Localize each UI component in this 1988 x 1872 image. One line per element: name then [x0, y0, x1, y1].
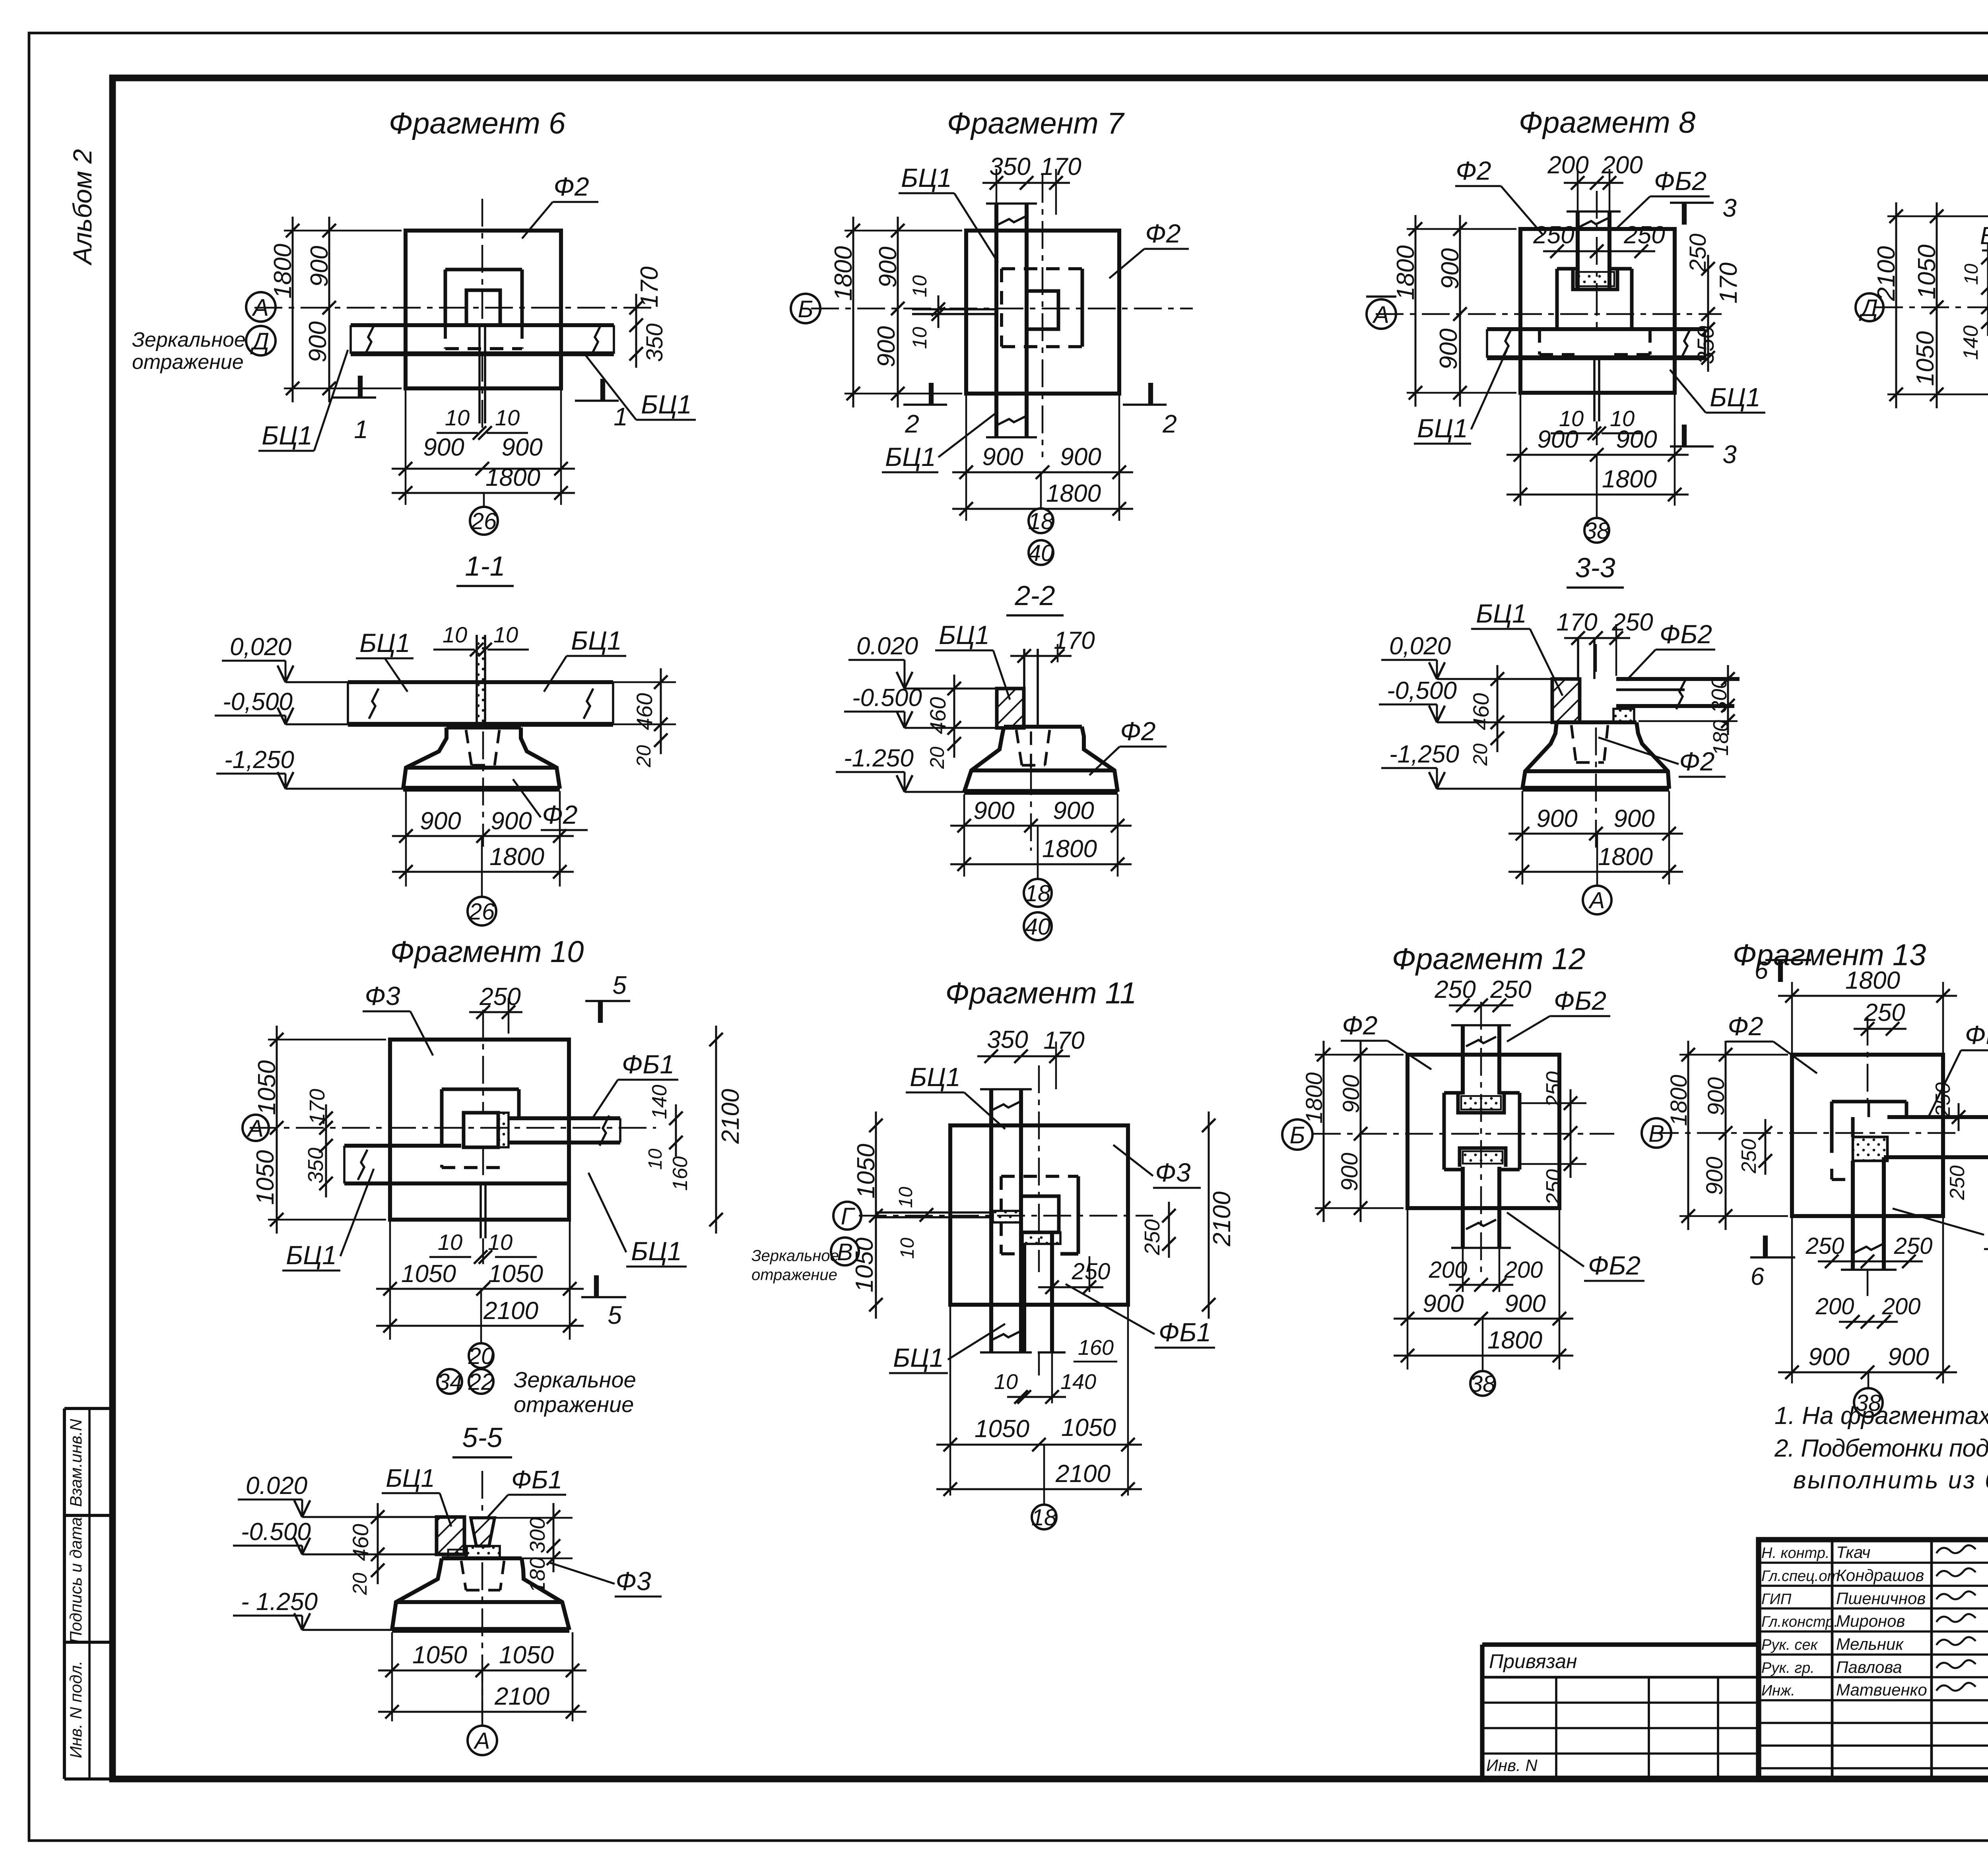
svg-text:А: А — [1372, 301, 1389, 328]
svg-text:А: А — [247, 1115, 264, 1142]
title block grid — [1759, 1540, 1988, 1779]
svg-text:Б: Б — [1289, 1122, 1305, 1148]
fr11 right dim 2100 — [1208, 1112, 1210, 1319]
svg-text:Фрагмент 12: Фрагмент 12 — [1392, 942, 1586, 976]
sec1 beam band — [348, 680, 613, 684]
fr6 left dim 900 900 — [328, 217, 330, 402]
svg-text:1: 1 — [354, 415, 368, 444]
fr13 sec mark 6 bottom — [1763, 1236, 1768, 1257]
fr8 dim 900 900 bottom — [1507, 454, 1689, 456]
svg-text:1-1: 1-1 — [465, 551, 505, 582]
fragment 12 FB2 beam lower — [1461, 1167, 1465, 1248]
fragment 13 beam FB2 right — [1887, 1115, 1988, 1119]
svg-text:900: 900 — [306, 246, 333, 287]
fr10 dim 1050 1050 bottom — [376, 1288, 584, 1290]
svg-text:БЦ1: БЦ1 — [1476, 599, 1527, 628]
fr8 sec mark 3 bottom — [1682, 425, 1687, 446]
svg-text:460: 460 — [1468, 693, 1493, 730]
svg-text:300: 300 — [526, 1517, 549, 1553]
svg-text:1. На фрагментах 9... 11 по: 1. На фрагментах 9... 11 подбетонка усло… — [1774, 1402, 1988, 1430]
svg-text:1050: 1050 — [252, 1150, 279, 1205]
fr10 fb1 break — [600, 1115, 609, 1146]
fr6 circle 26 — [470, 507, 498, 535]
svg-text:Ф2: Ф2 — [553, 172, 589, 201]
svg-text:38: 38 — [1584, 518, 1610, 544]
sec1 right dim 460 20 — [660, 668, 662, 754]
svg-text:Рук. сек: Рук. сек — [1761, 1637, 1819, 1653]
svg-text:20: 20 — [468, 1343, 494, 1369]
fr8 left dim 1800 — [1415, 215, 1417, 407]
svg-text:250: 250 — [1864, 999, 1905, 1026]
svg-text:ФБ2: ФБ2 — [1965, 1020, 1988, 1049]
sec2 dim 170 — [1057, 644, 1059, 662]
fragment 10 beam BC1 left — [344, 1144, 461, 1148]
svg-text:Ф3: Ф3 — [1155, 1158, 1190, 1187]
fr6 sec mark 1 left — [332, 396, 376, 399]
fr7 left dim 1800 — [852, 217, 854, 407]
fr13 center dims 250 250 — [1958, 1103, 1960, 1131]
svg-text:250: 250 — [1542, 1071, 1566, 1108]
svg-text:А: А — [252, 294, 269, 321]
svg-text:10: 10 — [445, 405, 470, 430]
svg-text:Ткач: Ткач — [1836, 1543, 1870, 1562]
svg-text:900: 900 — [1337, 1153, 1363, 1191]
svg-text:Привязан: Привязан — [1489, 1650, 1577, 1672]
svg-text:170: 170 — [1040, 153, 1081, 180]
svg-text:1050: 1050 — [499, 1641, 554, 1669]
svg-text:1800: 1800 — [269, 244, 297, 299]
svg-text:170: 170 — [1043, 1027, 1084, 1054]
fragment 10 axis circle A — [243, 1115, 269, 1141]
svg-text:1050: 1050 — [1912, 331, 1939, 386]
svg-text:250: 250 — [1434, 976, 1475, 1003]
fr10 bc1 break — [358, 1150, 367, 1180]
svg-text:10: 10 — [909, 275, 931, 297]
svg-text:160: 160 — [1078, 1336, 1114, 1360]
svg-text:6: 6 — [1751, 1263, 1765, 1290]
fragment 6 beam BC1 — [351, 323, 614, 327]
svg-text:250: 250 — [1894, 1233, 1933, 1259]
fragment 13 outer square F2 — [1792, 1055, 1943, 1216]
svg-text:А: А — [474, 1728, 490, 1754]
fr11 right dim 250 — [1168, 1202, 1170, 1258]
sec2 dim 1800 — [950, 863, 1132, 865]
svg-text:1800: 1800 — [1042, 835, 1097, 863]
svg-text:10: 10 — [909, 327, 931, 349]
svg-text:900: 900 — [1435, 328, 1462, 369]
svg-text:отражение: отражение — [751, 1266, 837, 1284]
svg-text:900: 900 — [1537, 426, 1578, 453]
svg-text:250: 250 — [1490, 976, 1531, 1003]
svg-text:Д: Д — [250, 328, 269, 355]
svg-text:10: 10 — [443, 622, 467, 647]
svg-text:900: 900 — [982, 443, 1023, 471]
fr7 joint lines horizontal — [912, 308, 998, 310]
sec1 beam breaks — [369, 689, 379, 719]
svg-text:БЦ1: БЦ1 — [885, 442, 936, 471]
sec3 dim 460 20 — [1497, 665, 1499, 752]
svg-text:250: 250 — [1685, 234, 1711, 273]
fr6 left dim 1800 — [292, 217, 294, 402]
fr13 left dim 1800 — [1687, 1041, 1689, 1230]
sec2 BC1 hatched block — [997, 689, 1024, 728]
fr13 sec mark 6 top — [1778, 960, 1783, 982]
svg-text:БЦ1: БЦ1 — [571, 626, 622, 655]
sec5 dim 1050 1050 — [378, 1670, 586, 1672]
sec3 BC1 hatched block — [1552, 679, 1580, 722]
svg-text:0,020: 0,020 — [1389, 632, 1451, 660]
svg-text:БЦ1: БЦ1 — [286, 1240, 337, 1270]
fr8 right dim 250 170 — [1707, 255, 1709, 343]
svg-text:1050: 1050 — [975, 1415, 1029, 1443]
fr12 fb2 upper break — [1466, 1037, 1496, 1046]
sec3 circle A — [1583, 886, 1611, 914]
svg-text:900: 900 — [501, 434, 542, 461]
fragment 12 axis line B — [1313, 1133, 1614, 1135]
svg-text:900: 900 — [1505, 1290, 1545, 1317]
fr13 dim 250 250 — [1818, 1261, 1923, 1263]
sec3 footing dashed socket — [1571, 725, 1576, 762]
fr9 left dim 2100 — [1895, 202, 1897, 408]
fr13 top dim 1800 — [1778, 995, 1957, 997]
fr7 left dim 900 900 — [897, 217, 899, 407]
svg-text:900: 900 — [1423, 1290, 1464, 1317]
sec5 dim 2100 — [378, 1711, 586, 1713]
svg-text:ГИП: ГИП — [1761, 1591, 1792, 1608]
fragment 11 outer square F3 — [950, 1125, 1128, 1305]
svg-text:460: 460 — [348, 1524, 373, 1561]
fr8 left dim 900 900 — [1459, 215, 1461, 407]
svg-text:ФБ2: ФБ2 — [1660, 619, 1712, 649]
svg-text:2. Подбетонки под фундаменты: 2. Подбетонки под фундаменты Ф3 толщиной… — [1774, 1435, 1988, 1462]
svg-text:ФБ1: ФБ1 — [511, 1465, 562, 1494]
sec3 dotted block — [1613, 709, 1634, 722]
svg-text:0,020: 0,020 — [230, 633, 291, 661]
fr13 left dim 900 900 — [1725, 1041, 1727, 1230]
svg-text:2100: 2100 — [717, 1089, 744, 1144]
fragment 7 outer square F2 — [966, 231, 1119, 394]
fr10 top dim 250 — [469, 1011, 522, 1013]
fragment 7 axis circle B — [791, 294, 820, 323]
svg-text:1050: 1050 — [851, 1238, 878, 1292]
fr12 dim 1800 bottom — [1394, 1355, 1573, 1357]
svg-text:Пшеничнов: Пшеничнов — [1836, 1589, 1926, 1608]
svg-text:900: 900 — [1536, 805, 1577, 832]
fr11 dim 250 horiz — [1038, 1286, 1103, 1288]
svg-text:1800: 1800 — [1598, 843, 1653, 871]
svg-text:10: 10 — [895, 1187, 916, 1208]
svg-text:250: 250 — [1533, 221, 1574, 249]
svg-text:18: 18 — [1031, 1505, 1057, 1531]
sec1 footing F2 — [447, 726, 521, 729]
sec5 footing dashed socket — [461, 1561, 466, 1590]
svg-text:1800: 1800 — [485, 464, 540, 491]
svg-text:2100: 2100 — [1873, 246, 1900, 301]
svg-text:1: 1 — [613, 402, 628, 431]
svg-text:1050: 1050 — [412, 1641, 467, 1669]
svg-text:БЦ1: БЦ1 — [359, 628, 410, 658]
svg-text:Ф2: Ф2 — [1120, 716, 1155, 746]
svg-text:10: 10 — [1961, 264, 1982, 285]
fr8 beam break top — [1578, 218, 1609, 227]
fr12 right dims 250 250 — [1570, 1089, 1572, 1178]
svg-text:900: 900 — [1808, 1343, 1849, 1371]
fr7 sec marks 2 — [903, 403, 947, 406]
fr12 left dim 900 900 — [1360, 1041, 1362, 1222]
svg-text:5-5: 5-5 — [462, 1422, 503, 1453]
svg-text:1050: 1050 — [488, 1260, 543, 1288]
svg-text:200: 200 — [1429, 1257, 1468, 1283]
fragment 6 vertical centerline — [481, 199, 483, 326]
sec1 footing dashed socket — [466, 730, 472, 765]
fr13 top dim 250 — [1854, 1028, 1906, 1030]
fr10 right small dims — [675, 1104, 677, 1156]
fr10 circle 22 — [469, 1369, 493, 1394]
fr7 ext lines left — [845, 230, 962, 232]
fr7 circle 18 — [1029, 508, 1053, 533]
sec1 axis — [482, 731, 484, 847]
svg-text:-1.250: -1.250 — [844, 745, 914, 772]
svg-text:40: 40 — [1028, 540, 1054, 566]
svg-text:Взам.инв.N: Взам.инв.N — [66, 1419, 85, 1507]
svg-text:170: 170 — [1556, 609, 1597, 636]
svg-text:26: 26 — [469, 899, 495, 925]
svg-text:900: 900 — [1616, 426, 1657, 453]
fr8 dim 250 250 — [1543, 250, 1655, 252]
fr11 axis circle G — [833, 1202, 861, 1230]
svg-text:140: 140 — [648, 1085, 671, 1119]
svg-text:2100: 2100 — [483, 1297, 538, 1325]
svg-text:20: 20 — [1469, 743, 1491, 766]
fr10 left dim 1050 1050 — [276, 1026, 278, 1234]
svg-text:А: А — [1588, 888, 1605, 914]
fr10 left small dims — [325, 1104, 327, 1197]
sec3 axis — [1595, 644, 1597, 676]
svg-text:140: 140 — [1959, 326, 1982, 360]
fr8 FB2 U-block — [1573, 269, 1617, 289]
fr10 sec mark 5 top — [598, 1001, 603, 1023]
fr7 dim 900 900 bottom — [952, 471, 1133, 473]
sec5 BC1 hatched block — [437, 1517, 464, 1554]
svg-text:5: 5 — [612, 971, 627, 999]
svg-text:900: 900 — [1702, 1157, 1728, 1195]
fragment 12 outer square F2 — [1408, 1055, 1559, 1208]
svg-text:Фрагмент 6: Фрагмент 6 — [389, 107, 566, 140]
svg-text:0.020: 0.020 — [246, 1472, 307, 1500]
svg-text:Альбом 2: Альбом 2 — [68, 149, 97, 266]
svg-text:БЦ1: БЦ1 — [1417, 413, 1468, 443]
fragment 6 axis line A — [254, 307, 652, 309]
svg-text:Н. контр.: Н. контр. — [1761, 1545, 1829, 1562]
svg-text:3-3: 3-3 — [1575, 552, 1615, 583]
fragment 7 middle square — [1002, 267, 1082, 270]
svg-text:900: 900 — [1060, 443, 1101, 471]
fr12 vertical axis — [1480, 1002, 1482, 1272]
fr11 connectors dotted — [993, 1211, 1021, 1222]
svg-text:250: 250 — [1946, 1166, 1969, 1201]
fr11 circle 18 — [1032, 1505, 1056, 1529]
fragment 12 axis circle B — [1282, 1119, 1312, 1150]
svg-text:1800: 1800 — [489, 843, 544, 871]
svg-text:40: 40 — [1025, 914, 1051, 940]
svg-text:1050: 1050 — [1913, 244, 1941, 299]
svg-text:Матвиенко: Матвиенко — [1836, 1680, 1927, 1699]
svg-text:БЦ1: БЦ1 — [1710, 382, 1761, 412]
fr13 dim 200 200 — [1839, 1321, 1898, 1323]
fr11 bc1 breaks — [991, 1101, 1021, 1111]
sec2 circle 40 — [1024, 912, 1052, 940]
fragment 8 beam BC1 — [1487, 327, 1705, 331]
fr13 circle 38 — [1854, 1388, 1883, 1417]
svg-text:2100: 2100 — [1055, 1460, 1110, 1488]
privyazan block — [1482, 1642, 1759, 1647]
svg-text:Г: Г — [841, 1203, 856, 1230]
svg-text:В: В — [837, 1239, 853, 1265]
svg-text:350: 350 — [304, 1148, 328, 1183]
svg-text:- 1.250: - 1.250 — [241, 1588, 318, 1616]
svg-text:10: 10 — [994, 1370, 1018, 1394]
sec5 footing F3 — [442, 1556, 522, 1560]
fr6 ext lines left — [284, 230, 402, 232]
svg-text:900: 900 — [1888, 1343, 1929, 1371]
sec5 axis — [481, 1471, 483, 1517]
svg-text:ФБ2: ФБ2 — [1554, 986, 1606, 1015]
svg-text:1050: 1050 — [852, 1144, 880, 1199]
svg-text:10: 10 — [495, 405, 520, 430]
svg-text:170: 170 — [1054, 627, 1095, 654]
svg-text:Зеркальное: Зеркальное — [751, 1247, 839, 1265]
svg-text:250: 250 — [1932, 1082, 1955, 1117]
svg-text:Ф3: Ф3 — [365, 981, 400, 1011]
svg-text:Павлова: Павлова — [1836, 1658, 1902, 1676]
fr9 small dims left — [1987, 244, 1988, 321]
svg-text:200: 200 — [1882, 1294, 1921, 1319]
svg-text:1800: 1800 — [1602, 466, 1657, 493]
sec2 axis — [1030, 767, 1032, 851]
sec5 dim 460 20 — [377, 1503, 379, 1584]
svg-text:Гл.констр.: Гл.констр. — [1761, 1614, 1838, 1630]
sec3 column lines — [1577, 638, 1579, 679]
svg-text:Ф2: Ф2 — [1145, 219, 1180, 248]
fragment 6 outer square F2 — [406, 231, 561, 388]
svg-text:1800: 1800 — [1301, 1072, 1327, 1123]
fr11 left joint lines — [876, 1211, 991, 1214]
svg-text:2100: 2100 — [494, 1683, 549, 1710]
fr11 top dims 350 170 — [977, 1055, 1070, 1057]
svg-text:-0.500: -0.500 — [852, 684, 922, 712]
svg-text:отражение: отражение — [132, 351, 244, 374]
svg-text:-1,250: -1,250 — [224, 746, 294, 774]
sec5 dotted pads — [467, 1546, 500, 1558]
svg-text:2: 2 — [905, 409, 919, 438]
fr12 top dims 250 250 — [1449, 1005, 1513, 1007]
svg-text:18: 18 — [1028, 508, 1054, 534]
svg-text:250: 250 — [479, 983, 520, 1011]
svg-text:250: 250 — [1738, 1139, 1761, 1174]
fragment 11 beam FB1 vertical — [1022, 1244, 1026, 1352]
fr13 dim 900 900 — [1778, 1372, 1957, 1373]
sec2 circle 18 — [1024, 879, 1052, 907]
fragment 7 small square — [1027, 291, 1058, 329]
svg-text:ФБ2: ФБ2 — [1588, 1251, 1640, 1280]
fragment 8 middle square — [1557, 267, 1578, 271]
fragment 6 joint lines — [478, 325, 481, 423]
svg-text:1800: 1800 — [1046, 480, 1101, 507]
fr7 top dim 350 170 — [982, 182, 1070, 184]
svg-text:250: 250 — [1623, 221, 1665, 249]
fr13 axes — [1867, 1018, 1869, 1101]
fragment 7 axis line B — [811, 308, 1193, 310]
svg-text:Ф2: Ф2 — [1728, 1011, 1763, 1041]
fr11 dim 2100 bottom — [936, 1488, 1142, 1490]
fragment 10 beam FB1 right — [509, 1116, 620, 1120]
sec1 dim 1800 — [392, 871, 574, 873]
fragment 8 FB2 vertical beam — [1576, 211, 1580, 288]
svg-text:Фрагмент 8: Фрагмент 8 — [1519, 106, 1695, 140]
svg-text:6: 6 — [1755, 957, 1769, 984]
fr8 right dim 350 — [1707, 315, 1709, 372]
fr8 sec mark 3 top — [1682, 203, 1687, 225]
fragment 9 axis circle D — [1856, 293, 1883, 321]
sec2 footing dashed socket — [1016, 730, 1022, 765]
svg-text:Инв. N подл.: Инв. N подл. — [66, 1661, 85, 1758]
fr11 dim 1050 1050 bottom — [936, 1444, 1142, 1446]
svg-text:Ф3: Ф3 — [615, 1566, 651, 1596]
fr8 top dim 200 200 — [1564, 182, 1623, 184]
fr10 ext lines left — [268, 1039, 386, 1041]
svg-text:900: 900 — [423, 434, 464, 461]
svg-text:900: 900 — [1338, 1075, 1364, 1114]
sec3 dim 1800 — [1508, 871, 1683, 873]
svg-text:ФБ1: ФБ1 — [1159, 1317, 1211, 1347]
svg-text:БЦ1: БЦ1 — [893, 1343, 944, 1372]
fr7 dim 1800 bottom — [952, 508, 1133, 510]
fr10 connector strip — [498, 1113, 509, 1147]
sec2 footing F2 — [1004, 725, 1082, 729]
fragment 13 beam FB2 down — [1851, 1161, 1855, 1270]
svg-text:ФБ2: ФБ2 — [1654, 166, 1706, 196]
fragment 6 small square — [466, 290, 500, 325]
fr12 ext lines left — [1315, 1054, 1404, 1056]
sec3 top dims 170 250 — [1564, 637, 1630, 639]
fragment 9 axis line D — [1875, 307, 1988, 308]
fr13 left dim 250 — [1765, 1119, 1767, 1175]
fr12 fb2 lower U-block — [1460, 1148, 1506, 1167]
fr8 vertical axis — [1596, 191, 1598, 288]
svg-text:300: 300 — [1707, 677, 1731, 713]
svg-text:Ф2: Ф2 — [1456, 156, 1491, 185]
fragment 8 outer square F2 — [1520, 229, 1675, 393]
svg-text:900: 900 — [1053, 797, 1094, 824]
fragment 10 small square — [464, 1113, 498, 1147]
svg-text:Фрагмент 10: Фрагмент 10 — [390, 935, 584, 969]
svg-text:В: В — [1648, 1120, 1664, 1147]
sec1 joint — [476, 635, 478, 727]
svg-text:Мельник: Мельник — [1836, 1635, 1904, 1653]
svg-text:3: 3 — [1722, 440, 1737, 469]
svg-text:1050: 1050 — [401, 1260, 456, 1288]
svg-text:900: 900 — [1613, 805, 1654, 832]
fragment 6 beam break marks — [365, 324, 375, 355]
svg-text:Гл.спец.от: Гл.спец.от — [1761, 1568, 1840, 1585]
svg-text:отражение: отражение — [514, 1392, 634, 1417]
fragment 12 middle square — [1444, 1091, 1463, 1095]
svg-text:900: 900 — [973, 797, 1014, 824]
svg-text:2-2: 2-2 — [1014, 580, 1055, 611]
fr10 dim 2100 bottom — [376, 1325, 584, 1327]
sec3 FB2 beam right — [1616, 677, 1739, 681]
fr11 left dim 1050 1050 — [875, 1112, 877, 1319]
